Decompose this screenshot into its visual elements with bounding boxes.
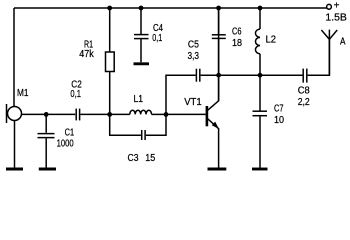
svg-text:A: A (340, 37, 346, 48)
svg-text:L2: L2 (266, 34, 277, 45)
svg-text:18: 18 (232, 38, 242, 49)
svg-text:3,3: 3,3 (188, 51, 200, 62)
svg-text:C6: C6 (232, 27, 242, 38)
svg-text:C7: C7 (274, 104, 284, 115)
svg-text:L1: L1 (134, 94, 144, 105)
svg-text:C8: C8 (298, 85, 310, 96)
svg-text:+: + (334, 1, 340, 12)
svg-text:C5: C5 (188, 39, 199, 50)
svg-text:1000: 1000 (57, 138, 74, 149)
svg-text:15: 15 (145, 153, 155, 164)
svg-text:C1: C1 (65, 128, 75, 139)
svg-text:1.5B: 1.5B (325, 13, 347, 24)
svg-text:10: 10 (274, 115, 284, 126)
svg-text:M1: M1 (17, 88, 29, 99)
svg-text:2,2: 2,2 (298, 97, 310, 108)
svg-text:0,1: 0,1 (152, 33, 162, 44)
svg-text:C3: C3 (128, 153, 139, 164)
svg-text:47k: 47k (79, 49, 94, 60)
svg-text:0,1: 0,1 (70, 89, 81, 100)
svg-text:VT1: VT1 (184, 97, 202, 108)
